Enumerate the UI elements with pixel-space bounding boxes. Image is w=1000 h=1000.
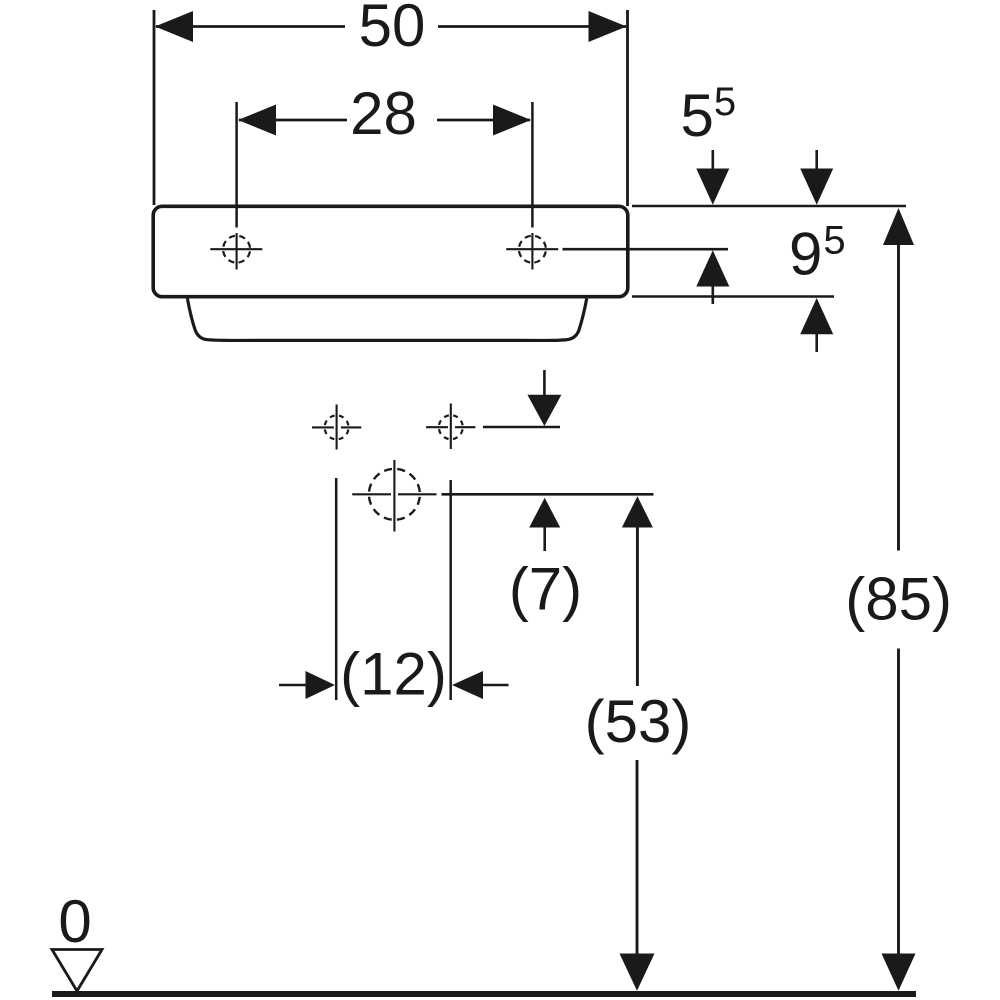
- svg-text:(7): (7): [509, 555, 582, 622]
- svg-text:50: 50: [359, 0, 426, 59]
- svg-text:(53): (53): [585, 688, 692, 755]
- svg-text:0: 0: [58, 888, 91, 955]
- svg-text:(85): (85): [845, 566, 952, 633]
- svg-text:28: 28: [350, 80, 417, 147]
- svg-text:(12): (12): [340, 641, 447, 708]
